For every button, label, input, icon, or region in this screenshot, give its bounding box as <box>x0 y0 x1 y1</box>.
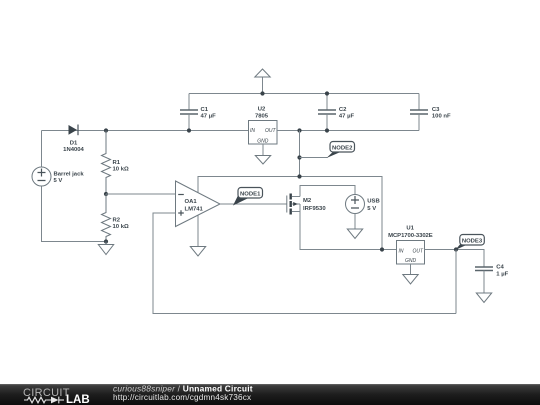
wire NODE3 junction down to feedback rail <box>455 250 457 314</box>
ground below USB <box>347 229 362 239</box>
svg-text:LM741: LM741 <box>185 206 204 212</box>
wire NODE2 stub <box>300 157 328 159</box>
node: C2 top junction <box>325 91 329 95</box>
wire op-amp V- pin to ground <box>197 216 199 247</box>
svg-text:OA1: OA1 <box>185 199 198 205</box>
svg-text:5 V: 5 V <box>54 178 63 184</box>
node: junction dot diode/R1 top <box>104 128 108 132</box>
svg-text:U1: U1 <box>406 226 414 232</box>
wire U2 OUT rail y=130 to C3 <box>277 130 419 132</box>
svg-text:OUT: OUT <box>265 128 277 134</box>
flag NODE1 <box>233 188 263 206</box>
svg-text:NODE2: NODE2 <box>332 145 353 151</box>
svg-text:R1: R1 <box>113 160 121 166</box>
wire top rail y=93 from C1 to C3 <box>189 93 419 95</box>
svg-text:100 nF: 100 nF <box>432 114 451 120</box>
svg-text:1N4004: 1N4004 <box>63 147 84 153</box>
svg-text:IRF9530: IRF9530 <box>303 206 326 212</box>
svg-text:5 V: 5 V <box>367 206 376 212</box>
diode D1 1N4004 <box>63 125 84 153</box>
voltage source USB 5V <box>346 195 380 214</box>
svg-text:M2: M2 <box>303 198 312 204</box>
node: divider midpoint junction <box>104 192 108 196</box>
node: C1 bottom junction <box>187 128 191 132</box>
node: junction U1 IN rail with right vertical <box>380 247 384 251</box>
ground below U1 GND pin <box>403 264 418 284</box>
svg-text:U2: U2 <box>258 107 266 113</box>
node: R2 bottom junction <box>104 239 108 243</box>
wire USB bottom lead <box>354 214 356 230</box>
resistor R1 10k <box>102 131 129 195</box>
svg-text:10 kΩ: 10 kΩ <box>113 167 129 173</box>
footer bar <box>0 384 540 405</box>
ground below C4 <box>476 293 491 303</box>
voltage source V1 Barrel jack <box>32 167 84 186</box>
svg-text:R2: R2 <box>113 218 121 224</box>
svg-text:C3: C3 <box>432 107 440 113</box>
wire input rail y=130 from barrel jack to U2 IN <box>42 130 249 132</box>
svg-text:47 µF: 47 µF <box>201 114 217 120</box>
regulator U2 7805 <box>249 107 278 145</box>
svg-text:IN: IN <box>399 248 404 254</box>
flipped ground symbol on top rail <box>255 69 270 94</box>
svg-text:CIRCUIT: CIRCUIT <box>23 387 70 399</box>
svg-text:curious88sniper / Unnamed Circ: curious88sniper / Unnamed Circuit <box>113 384 253 394</box>
wire barrel jack top lead <box>41 131 43 168</box>
capacitor C2 47uF <box>318 94 354 131</box>
flag NODE3 <box>455 235 484 251</box>
transistor M2 IRF9530 (P-MOSFET) <box>287 194 327 215</box>
svg-text:Barrel jack: Barrel jack <box>54 171 85 177</box>
capacitor C1 47uF <box>180 94 216 131</box>
node: top rail junction at flipped ground <box>260 91 264 95</box>
resistor R2 10k <box>102 194 129 242</box>
op-amp OA1 LM741 <box>176 181 221 227</box>
svg-text:GND: GND <box>405 258 417 264</box>
svg-text:NODE3: NODE3 <box>462 238 483 244</box>
svg-text:http://circuitlab.com/cgdmn4sk: http://circuitlab.com/cgdmn4sk736cx <box>113 393 251 402</box>
svg-text:LAB: LAB <box>66 394 90 405</box>
wire 5V rail y=176 from op-amp V+ to right vertical <box>198 177 382 250</box>
svg-text:C2: C2 <box>339 107 347 113</box>
svg-text:GND: GND <box>257 139 269 145</box>
svg-text:C1: C1 <box>201 107 209 113</box>
ground below U2 GND pin <box>255 144 270 164</box>
capacitor C3 100nF <box>410 94 451 131</box>
svg-text:MCP1700-3302E: MCP1700-3302E <box>388 233 433 239</box>
wire M2 source up and over to USB source <box>300 186 355 197</box>
node: OUT rail junction to NODE2 drop <box>297 128 301 132</box>
svg-text:USB: USB <box>367 199 379 205</box>
wire op-amp + input to bottom feedback rail <box>153 213 456 314</box>
svg-text:NODE1: NODE1 <box>240 191 261 197</box>
flag NODE2 <box>327 142 355 159</box>
svg-text:47 µF: 47 µF <box>339 114 355 120</box>
wire divider midpoint to op-amp inverting input <box>106 193 176 195</box>
svg-text:7805: 7805 <box>255 114 269 120</box>
svg-text:OUT: OUT <box>412 248 424 254</box>
wire barrel jack bottom lead and bottom return to ground <box>42 186 107 242</box>
svg-text:D1: D1 <box>70 140 78 146</box>
wire op-amp output to M2 gate <box>220 203 287 205</box>
regulator U1 MCP1700-3302E <box>388 226 433 264</box>
svg-text:10 kΩ: 10 kΩ <box>113 224 129 230</box>
CircuitLab logo resistor+diode glyph <box>24 397 64 404</box>
svg-text:C4: C4 <box>496 265 504 271</box>
node: NODE2 stub junction <box>297 155 301 159</box>
node: NODE3 junction <box>454 247 458 251</box>
wire U1 OUT to NODE3 junction and C4 <box>425 250 485 268</box>
svg-text:IN: IN <box>250 128 255 134</box>
svg-text:1 µF: 1 µF <box>496 271 508 277</box>
node: 5V rail junction <box>297 174 301 178</box>
wire M2 drain down to U1 IN rail <box>300 204 397 250</box>
ground below op-amp <box>190 247 205 257</box>
capacitor C4 1uF <box>475 265 509 294</box>
wire vertical drop from OUT rail to 5V rail <box>299 131 301 177</box>
node: C2 bottom junction <box>325 128 329 132</box>
ground below R2 <box>98 242 113 255</box>
